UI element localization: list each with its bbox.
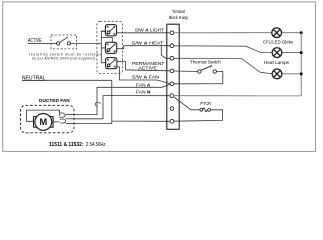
terminal block 8 way — [167, 9, 189, 129]
svg-text:FAN N: FAN N — [136, 89, 151, 95]
wire connector to exits — [66, 114, 75, 116]
terminal 7 — [170, 107, 174, 111]
wire right bus — [300, 33, 302, 96]
svg-text:Heat Lamps: Heat Lamps — [264, 60, 290, 65]
lamp L1 CFL/LED globe — [272, 28, 282, 38]
wire terminal 2 to lamp L2 — [174, 46, 272, 53]
border frame — [3, 2, 316, 152]
wire stub to switch SW2 left — [101, 47, 105, 49]
wire fan neutral motor to terminal 6 — [75, 96, 170, 119]
svg-text:2.5A 50Hz: 2.5A 50Hz — [86, 142, 106, 148]
svg-text:Terminal: Terminal — [172, 9, 185, 14]
wire lamp L1 to right bus — [281, 32, 301, 34]
wire loop to switch SW2 top — [101, 38, 112, 43]
ducted fan dashed enclosure — [21, 105, 75, 132]
wire SW3 to terminal 5 (switched fan active) — [117, 67, 170, 84]
terminal 8 — [170, 119, 174, 123]
terminal 1 — [170, 31, 174, 35]
wire motor loop over top — [27, 110, 60, 121]
wire motor right lead — [53, 121, 60, 123]
wire terminal 1 to lamp L1 — [174, 32, 272, 34]
terminal 2 — [170, 44, 174, 48]
node ACTIVE label — [28, 38, 42, 44]
wire stub to switch SW3 left — [101, 62, 106, 64]
wire stub to switch SW1 — [101, 30, 105, 32]
PTCR R1 — [200, 108, 211, 112]
wire neutral run — [46, 80, 112, 123]
wire SW3 loop to terminal 4 (permanent active) — [117, 62, 170, 71]
lamp L3 heat lamp — [272, 69, 282, 79]
wire terminal 6 to right bus — [174, 95, 301, 97]
thermal switch TS1 — [198, 66, 217, 74]
wire lamp L3 to right bus — [282, 73, 302, 75]
wire link terminal 2 to terminal 3 — [161, 46, 170, 59]
svg-text:Block 8 way: Block 8 way — [169, 15, 189, 20]
terminal 3 — [170, 56, 174, 60]
wire active vertical bus — [100, 31, 102, 63]
wire PTCR return to terminal 8 — [174, 110, 223, 121]
note isolating switch text — [29, 53, 101, 61]
wire thermal switch return to terminal 5 — [174, 72, 223, 84]
junction dot bus lamp L3 — [300, 72, 303, 75]
connector plug motor — [59, 113, 66, 123]
wire terminal 6 to PTCR — [174, 97, 200, 110]
switch mech SW1 — [105, 25, 116, 36]
svg-text:11511 & 11532:: 11511 & 11532: — [49, 142, 84, 148]
wire active switch to bus — [71, 42, 102, 44]
terminal 4 — [170, 69, 174, 73]
svg-text:DUCTED FAN: DUCTED FAN — [39, 98, 70, 103]
switch mech SW2 — [105, 42, 116, 53]
svg-text:CFL/LED Globe: CFL/LED Globe — [263, 40, 294, 45]
wire lamp L2 to right bus — [282, 52, 302, 54]
wire neutral to terminal 8 — [112, 120, 170, 122]
junction dot bus top — [300, 31, 303, 34]
lamp L2 heat lamp — [272, 48, 282, 58]
isolating switch S1 (dashed enclosure) — [51, 35, 77, 49]
wire fan active motor to terminal 5 — [75, 84, 170, 114]
junction dot bus lamp L2 — [300, 51, 303, 54]
svg-text:as per AS/NZS 3000 (not suppli: as per AS/NZS 3000 (not supplied) — [32, 57, 95, 61]
switch mech SW3 — [106, 58, 117, 69]
wire SW2 to terminal 2 — [117, 46, 170, 49]
switch bank dashed enclosure — [97, 21, 123, 73]
svg-text:PTCR: PTCR — [200, 101, 211, 106]
node NEUTRAL label — [22, 76, 46, 82]
svg-text:M: M — [39, 117, 47, 127]
terminal 5 — [170, 82, 174, 86]
terminal 6 — [170, 94, 174, 98]
wire active to isolating switch — [42, 42, 57, 44]
svg-text:Thermal Switch: Thermal Switch — [190, 60, 221, 65]
wire terminal 4 to thermal switch — [174, 70, 198, 73]
motor M1 — [34, 114, 54, 131]
wire crossover curl — [95, 102, 100, 106]
wire SW1 to terminal 1 — [117, 32, 170, 34]
wire terminal 3 to lamp L3 — [174, 58, 272, 74]
